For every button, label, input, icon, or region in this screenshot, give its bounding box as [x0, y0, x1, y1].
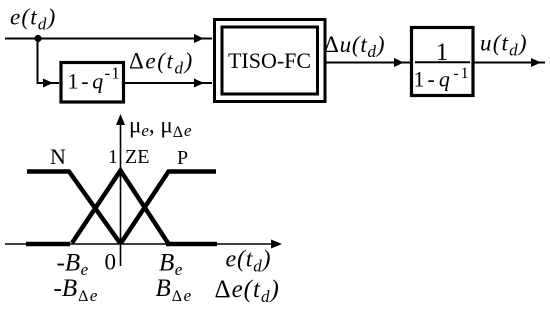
block integrator 1/(1-q^-1)	[412, 28, 474, 96]
svg-text:Δu(td): Δu(td)	[324, 32, 385, 61]
arrow u output	[531, 58, 541, 67]
wire branch down from node	[38, 39, 60, 84]
block TISO-FC inner	[222, 27, 318, 94]
svg-text:P: P	[177, 147, 188, 169]
svg-text:Δe(td): Δe(td)	[215, 276, 280, 306]
svg-text:e(td): e(td)	[226, 247, 272, 276]
block 1-q^-1	[61, 63, 124, 103]
axis horizontal (e, delta-e)	[5, 243, 278, 245]
arrow axis horizontal	[271, 240, 282, 249]
svg-text:1: 1	[108, 146, 118, 168]
svg-text:ZE: ZE	[125, 146, 149, 168]
block TISO-FC outer	[215, 20, 326, 102]
arrow axis vertical	[116, 114, 125, 125]
svg-text:e(td): e(td)	[10, 5, 56, 34]
membership N	[27, 172, 120, 244]
baseline segment right	[166, 242, 217, 247]
arrow into TISO-FC delta-e input	[194, 79, 204, 88]
svg-text:0: 0	[105, 250, 117, 275]
wire e input	[5, 38, 212, 40]
svg-text:N: N	[50, 144, 66, 169]
svg-text:TISO-FC: TISO-FC	[228, 48, 311, 73]
fraction bar	[415, 61, 470, 63]
svg-text:Δe(td): Δe(td)	[129, 49, 194, 78]
node junction dot	[34, 35, 41, 42]
membership ZE	[72, 171, 168, 244]
wire u output	[473, 62, 545, 64]
wire delta-e	[124, 82, 212, 84]
arrow into integrator	[394, 58, 404, 67]
baseline segment left	[26, 242, 70, 247]
arrow into TISO-FC e input	[194, 34, 204, 43]
arrow into 1-q^-1 block	[43, 79, 53, 88]
wire delta-u	[326, 62, 410, 64]
svg-text:u(td): u(td)	[480, 31, 528, 60]
membership P	[121, 172, 216, 244]
axis vertical (mu)	[120, 118, 122, 266]
